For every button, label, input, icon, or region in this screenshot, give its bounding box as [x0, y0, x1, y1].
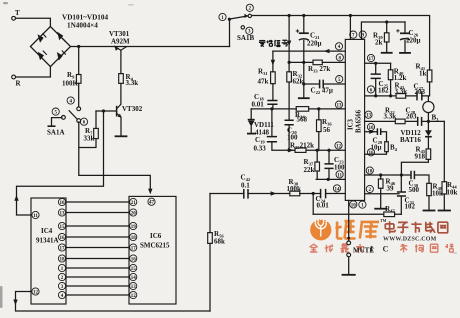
pin circle 2 SA1B — [246, 4, 253, 11]
wire receive-signal line down — [288, 16, 290, 151]
capacitor C42 0.1 — [244, 189, 248, 199]
svg-text:16: 16 — [131, 257, 137, 262]
IC4 left pins — [32, 211, 39, 218]
resistor R31 47k — [271, 72, 276, 84]
svg-text:47k: 47k — [258, 78, 269, 86]
ground bar C21 — [299, 97, 309, 99]
svg-text:3.3k: 3.3k — [126, 79, 139, 87]
svg-text:10k: 10k — [432, 190, 443, 198]
wire bridge bottom to R terminal — [16, 67, 51, 77]
wire C22 to pin5 — [304, 83, 346, 85]
wire R56 68k riser — [209, 194, 211, 312]
arrow on C29 row — [369, 130, 375, 134]
svg-text:TM: TM — [380, 218, 387, 223]
resistor R40 1.2k — [388, 70, 393, 80]
svg-text:56: 56 — [323, 126, 331, 134]
wire C19 branch — [272, 109, 290, 150]
bar SA1A stub — [48, 125, 54, 127]
wire SA1A common down — [79, 122, 151, 192]
svg-text:12: 12 — [33, 290, 39, 295]
resistor R38 100k — [290, 191, 300, 196]
terminal T — [12, 16, 16, 20]
junction dots — [77, 45, 80, 48]
capacitor C25 182 — [371, 74, 381, 78]
svg-text:13: 13 — [366, 114, 372, 119]
svg-text:10: 10 — [351, 203, 357, 208]
capacitor C29 10u — [377, 128, 380, 135]
transistor VT301 — [115, 47, 127, 51]
transducer B3 — [423, 101, 434, 112]
switch SA1B pole contact — [248, 14, 251, 17]
wire pin18 row — [365, 175, 429, 183]
wire IC4 to IC6 bus lines — [66, 202, 129, 295]
svg-text:0.1: 0.1 — [241, 182, 250, 190]
receiver B4 — [385, 142, 389, 152]
wire pin4 row — [273, 50, 345, 52]
wire R48 bottom — [428, 196, 430, 211]
wire R40 branch — [390, 63, 392, 96]
diode VD102 — [57, 32, 63, 41]
IC3 BA6566 box — [345, 39, 364, 200]
svg-text:33k: 33k — [84, 135, 95, 143]
capacitor C24 0.01 — [321, 189, 326, 199]
resistor R46 39 — [378, 179, 383, 188]
svg-text:3.3k: 3.3k — [384, 112, 397, 120]
svg-text:BAT16: BAT16 — [400, 136, 421, 144]
ground bar R39 — [382, 52, 392, 54]
wire pin6 row — [365, 96, 429, 102]
svg-text:BA6566: BA6566 — [356, 109, 363, 133]
resistor R9 100K — [76, 75, 81, 84]
wire R46 branch — [380, 175, 382, 209]
svg-text:18: 18 — [60, 257, 66, 262]
ground bar R46 — [375, 208, 386, 210]
arrow receive signal — [287, 41, 291, 47]
wire SA1A blade — [69, 111, 77, 120]
svg-text:220µ: 220µ — [406, 37, 421, 45]
svg-text:19: 19 — [131, 225, 137, 230]
resistor R45 918 — [426, 149, 431, 160]
capacitor C28 203 — [418, 117, 422, 126]
svg-text:10: 10 — [60, 201, 66, 206]
capacitor C26 220u electrolytic — [400, 32, 410, 34]
svg-text:SA1B: SA1B — [237, 34, 254, 42]
svg-text:39: 39 — [387, 185, 395, 193]
wire R9 branch down — [78, 47, 80, 107]
wire SA1B blade — [230, 16, 248, 19]
diode VD103 — [38, 52, 44, 61]
IC6 SMC6215 box — [129, 196, 176, 304]
IC6 left pins — [130, 198, 137, 205]
svg-text:12: 12 — [131, 294, 137, 299]
label receive signal — [259, 40, 266, 47]
svg-text:203: 203 — [415, 88, 426, 96]
svg-text:182: 182 — [378, 87, 389, 95]
svg-text:IC3: IC3 — [348, 118, 355, 130]
svg-text:13: 13 — [337, 104, 343, 109]
svg-text:91341A: 91341A — [36, 237, 59, 245]
svg-text:18: 18 — [367, 169, 373, 174]
wire C42 R38 C24 row to pin14 — [210, 193, 345, 195]
watermark logo icon — [315, 221, 326, 236]
wire rail up to SA1B pole — [229, 19, 231, 46]
arrow on R38 row — [271, 191, 277, 195]
svg-text:1k: 1k — [419, 70, 427, 78]
wire pin17 row — [365, 62, 391, 64]
svg-text:14: 14 — [335, 187, 341, 192]
wire C31 branch — [400, 175, 402, 214]
diode VD112 BAT16 — [425, 130, 432, 136]
IC6 top pin — [148, 198, 155, 205]
resistor R48 10k — [427, 183, 432, 195]
wire R39 branch — [386, 22, 388, 53]
diode VD104 — [57, 52, 63, 61]
svg-text:500: 500 — [409, 186, 420, 194]
svg-text:11: 11 — [33, 214, 38, 219]
capacitor C30 500 — [411, 171, 414, 179]
switch SA1A terminal 6 — [77, 119, 81, 123]
wire VT302 base row — [96, 110, 117, 112]
svg-text:0.33: 0.33 — [254, 145, 267, 153]
pin circle 4 top left — [67, 97, 74, 104]
svg-text:13: 13 — [60, 211, 66, 216]
svg-text:100K: 100K — [62, 80, 79, 88]
svg-text:3.3k: 3.3k — [395, 88, 408, 96]
wire SA1A aux stub — [52, 118, 62, 126]
ground bar R48 — [424, 210, 435, 212]
svg-text:21: 21 — [131, 201, 137, 206]
wire R47 row riser — [312, 194, 314, 215]
resistor R44 10k — [442, 182, 447, 194]
terminal contact 4 — [77, 107, 81, 111]
svg-text:16: 16 — [60, 236, 66, 241]
wire pin7 riser — [349, 16, 351, 40]
arrow into R31 — [271, 60, 275, 66]
svg-text:17: 17 — [369, 57, 375, 62]
svg-text:17: 17 — [60, 246, 66, 251]
svg-text:16: 16 — [369, 151, 375, 156]
transistor VT302 — [116, 106, 118, 117]
watermark — [310, 218, 454, 254]
svg-text:R35212k: R35212k — [290, 142, 314, 151]
watermark title glyphs — [385, 221, 395, 233]
resistor R43 3.3k — [396, 94, 406, 99]
capacitor C19 0.33 — [267, 137, 277, 142]
switch SA1B contact 3 — [241, 26, 244, 29]
svg-text:C: C — [383, 244, 389, 254]
arrow on R35 row — [288, 148, 294, 152]
middle rail pin13 — [251, 108, 345, 110]
capacitor C18 0.01 — [267, 101, 277, 105]
ground bar VT302 — [116, 135, 127, 137]
svg-text:IC4: IC4 — [41, 227, 53, 235]
pin circle 5 — [52, 108, 59, 115]
wire base node down-left to IC4 pin11 — [17, 111, 104, 215]
svg-text:10: 10 — [369, 126, 375, 131]
svg-text:203: 203 — [406, 113, 417, 121]
wire pin13 row — [365, 120, 445, 122]
wire R36 56 branch — [318, 109, 320, 150]
svg-text:13: 13 — [131, 285, 137, 290]
IC4 91341A box — [31, 198, 66, 304]
wire T terminal to bridge top — [16, 18, 51, 26]
IC4 right pins — [58, 198, 65, 205]
arrow on bottom rail down — [13, 300, 17, 306]
capacitor C21 220u electrolytic — [299, 32, 309, 34]
pin circle 3 SA1B — [246, 27, 253, 34]
pin circle 6 — [80, 118, 87, 125]
wire R35 row to pin12 — [290, 149, 345, 151]
svg-text:15: 15 — [131, 267, 137, 272]
svg-text:18: 18 — [131, 236, 137, 241]
svg-text:SA1A: SA1A — [47, 129, 65, 137]
wire pin11 bar — [316, 178, 345, 180]
arrow on pin4 row — [324, 49, 330, 53]
wire pin2 stub — [365, 193, 399, 195]
wire C23 branch — [328, 150, 330, 179]
capacitor C31 102 — [397, 192, 406, 196]
switch SA1A terminal 5 — [62, 116, 66, 120]
pin circle 1 SA1B — [219, 13, 226, 20]
resistor R32 62k — [287, 72, 292, 82]
wire pin10 row C29 B4 loop — [365, 132, 387, 155]
wire IC4 pin12 to bottom rail — [16, 292, 211, 312]
wire VT302 collector chain — [120, 50, 122, 104]
watermark logo circle — [310, 219, 331, 240]
svg-text:100: 100 — [334, 164, 345, 172]
wire pin9 riser and stub — [361, 22, 405, 39]
svg-text:A92M: A92M — [111, 38, 130, 46]
wire R7 branch — [79, 111, 96, 148]
watermark slogan glyphs — [310, 244, 318, 252]
svg-text:SMC6215: SMC6215 — [140, 242, 170, 250]
capacitor C20 100 — [285, 120, 294, 125]
svg-text:2k: 2k — [375, 39, 383, 47]
wire C25 branch — [375, 63, 377, 96]
resistor R4 3.3k — [119, 74, 124, 84]
IC3 right pins — [367, 54, 374, 61]
resistor R22 3.3k — [395, 119, 405, 124]
wire VD111 branch — [250, 109, 252, 133]
svg-text:15: 15 — [60, 225, 66, 230]
diode VD111 4148 — [248, 119, 255, 121]
wire C21 ground branch — [303, 16, 305, 99]
svg-text:568: 568 — [297, 116, 308, 124]
resistor R36 56 — [317, 120, 322, 132]
wire VD112 R45 chain — [401, 121, 428, 175]
svg-text:20: 20 — [131, 211, 137, 216]
svg-text:WWW.DZSC.COM: WWW.DZSC.COM — [383, 237, 437, 243]
wire R37 branch — [316, 150, 318, 179]
capacitor C23 100 — [324, 164, 333, 169]
resistor R34 568 — [296, 107, 309, 112]
IC3 top pins — [350, 31, 357, 38]
resistor R47 — [384, 212, 395, 217]
svg-text:T: T — [15, 9, 20, 17]
ground bar C26 — [400, 52, 410, 54]
wire R31 C18 branch — [272, 51, 274, 109]
svg-text:MUTE: MUTE — [353, 247, 374, 255]
resistor R41 1k — [427, 70, 432, 82]
svg-text:100k: 100k — [287, 185, 302, 193]
svg-text:918: 918 — [415, 153, 426, 161]
svg-text:VT302: VT302 — [122, 105, 143, 113]
ground bar R44 — [439, 210, 450, 212]
IC3 left pins — [335, 43, 342, 50]
svg-text:R33 27k: R33 27k — [308, 65, 330, 74]
svg-text:14: 14 — [131, 276, 137, 281]
svg-text:220µ: 220µ — [307, 40, 322, 48]
diode VD101 — [38, 34, 44, 43]
wire MUTE lower — [348, 257, 350, 275]
wire MUTE down — [348, 200, 350, 240]
svg-text:11: 11 — [337, 173, 342, 178]
svg-text:102: 102 — [405, 203, 416, 211]
resistor R39 2k — [384, 33, 389, 42]
wire node to R33 to pin8 — [289, 61, 345, 63]
ground bar MUTE — [343, 274, 355, 276]
capacitor C22 47u — [320, 80, 324, 89]
svg-text:0.01: 0.01 — [317, 202, 330, 210]
svg-text:47: 47 — [149, 201, 155, 206]
resistor R35 212k — [295, 148, 306, 152]
MUTE switch contacts — [347, 241, 351, 245]
arrow on left vertical up — [14, 195, 18, 201]
svg-text:12: 12 — [336, 144, 342, 149]
wire C26 branch — [404, 22, 406, 53]
diode bridge VD101-VD104 outline — [30, 27, 70, 67]
resistor R7 33k — [94, 128, 99, 138]
watermark brand glyphs — [336, 221, 356, 238]
ground bar VD111 — [248, 133, 255, 135]
wire R47 row — [313, 213, 401, 215]
wire B3 bottom — [427, 113, 429, 122]
svg-text:17: 17 — [131, 246, 137, 251]
svg-text:0.01: 0.01 — [252, 101, 265, 109]
svg-text:IC6: IC6 — [150, 232, 162, 240]
wire bridge right vertex to VT301 rail — [71, 46, 230, 48]
resistor R56 68k — [208, 233, 213, 244]
terminal R — [12, 75, 16, 79]
svg-text:22k: 22k — [304, 166, 315, 174]
resistor R37 22k — [315, 162, 320, 171]
svg-text:VD101~VD104: VD101~VD104 — [62, 14, 108, 22]
resistor R33 27k — [313, 60, 322, 65]
svg-text:68k: 68k — [214, 238, 225, 246]
wire R41 bottom — [429, 82, 431, 96]
svg-text:62k: 62k — [293, 78, 304, 86]
svg-text:1N4004×4: 1N4004×4 — [67, 22, 98, 30]
wire top supply rail — [253, 16, 430, 71]
svg-text:100: 100 — [287, 134, 298, 142]
wire VT302 emitter down — [120, 117, 122, 135]
svg-text:C22 47µ: C22 47µ — [311, 87, 333, 96]
capacitor C27 203 — [417, 91, 422, 100]
arrow into IC6 top — [148, 189, 152, 195]
svg-text:10k: 10k — [447, 189, 458, 197]
arrow on SA1B blade — [244, 14, 248, 18]
wire R44 branch — [443, 121, 445, 210]
IC3 bottom pins — [350, 201, 357, 208]
